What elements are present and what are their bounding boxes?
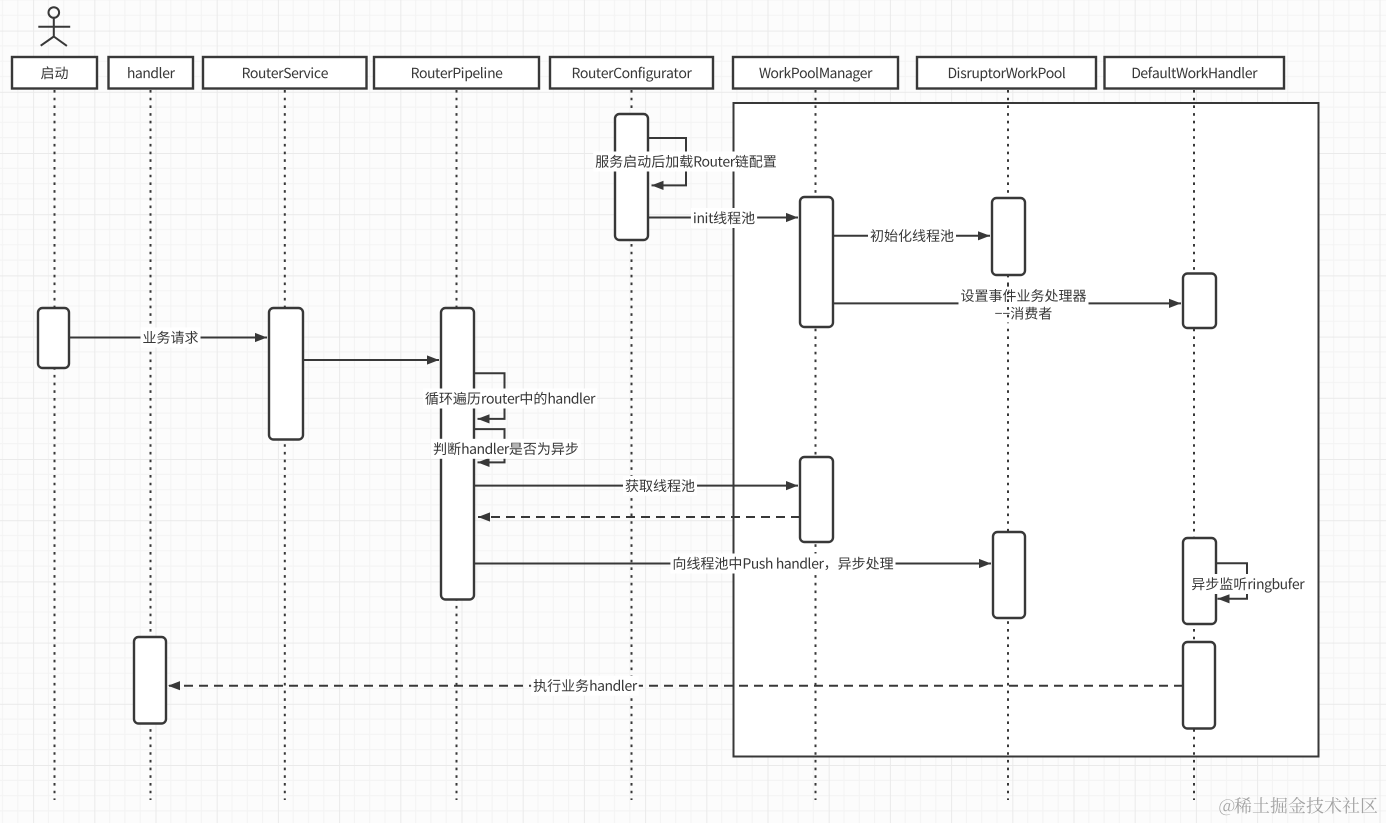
message arrow 设置事件业务处理器--消费者 — [833, 299, 1181, 308]
label 业务请求 — [141, 328, 201, 348]
activation RouterService #1 — [269, 308, 303, 440]
label 服务启动后加载Router链配置 — [593, 152, 779, 172]
lifeline RouterConfigurator — [631, 90, 633, 800]
activation handler #1 — [134, 637, 166, 724]
lifeline DisruptorWorkPool — [1007, 90, 1009, 800]
self-message loop 异步监听ringbufer — [1216, 563, 1247, 603]
message arrow init线程池 — [648, 213, 798, 222]
participant header RouterService — [203, 57, 367, 89]
lifeline handler — [150, 90, 152, 800]
activation WorkPoolManager #2 — [800, 457, 833, 542]
activation WorkPoolManager #1 — [800, 197, 833, 327]
participant header RouterPipeline — [374, 57, 539, 89]
activation RouterConfigurator #1 — [615, 114, 648, 240]
participant header RouterConfigurator — [550, 57, 713, 89]
lifeline DefaultWorkHandler — [1193, 90, 1195, 800]
self-message loop 循环遍历router中的handler — [474, 373, 505, 423]
activation DefaultWorkHandler #3 — [1183, 642, 1215, 729]
label 判断handler是否为异步 — [431, 439, 581, 459]
frame: WorkPool group container — [734, 103, 1319, 757]
participant header 启动 — [12, 57, 97, 89]
actor stick figure (启动) — [38, 7, 70, 46]
label 获取线程池 — [623, 476, 697, 496]
label 向线程池中Push handler，异步处理 — [670, 554, 895, 574]
message arrow 执行业务handler (dashed) — [168, 681, 1183, 690]
label 异步监听ringbufer — [1189, 574, 1306, 594]
message arrow 业务请求 — [69, 333, 267, 342]
lifeline DisruptorWorkPool (segment over label) — [1007, 284, 1009, 323]
label −−消费者 — [993, 303, 1054, 323]
message arrow 获取线程池 — [474, 481, 798, 490]
lifeline WorkPoolManager — [815, 90, 817, 800]
message arrow RouterService to RouterPipeline — [303, 355, 439, 364]
lifeline RouterService — [284, 90, 286, 800]
watermark @稀土掘金技术社区 — [1219, 797, 1377, 815]
activation DisruptorWorkPool #2 — [993, 532, 1025, 618]
label init线程池 — [691, 208, 757, 228]
lifeline 启动 — [54, 90, 56, 800]
participant header handler — [109, 57, 194, 89]
label 设置事件业务处理器 — [959, 286, 1089, 306]
message arrow dashed return 线程池 — [478, 512, 800, 521]
participant header DefaultWorkHandler — [1105, 57, 1285, 89]
message arrow 初始化线程池 — [833, 231, 990, 240]
label 执行业务handler — [531, 676, 639, 696]
participant header DisruptorWorkPool — [917, 57, 1096, 89]
activation DefaultWorkHandler #2 — [1183, 538, 1216, 624]
activation DisruptorWorkPool #1 — [992, 198, 1025, 275]
message arrow 向线程池中Push handler 异步处理 — [474, 559, 991, 568]
activation 启动 #1 — [38, 308, 69, 368]
label 初始化线程池 — [868, 226, 956, 246]
activation RouterPipeline #1 — [441, 308, 474, 600]
activation DefaultWorkHandler #1 — [1183, 274, 1216, 329]
self-message loop 判断handler是否为异步 — [474, 429, 505, 467]
label 循环遍历router中的handler — [423, 389, 597, 409]
participant header WorkPoolManager — [733, 57, 898, 89]
lifeline RouterPipeline — [456, 90, 458, 800]
self-message loop 服务启动后加载Router链配置 — [648, 138, 686, 190]
